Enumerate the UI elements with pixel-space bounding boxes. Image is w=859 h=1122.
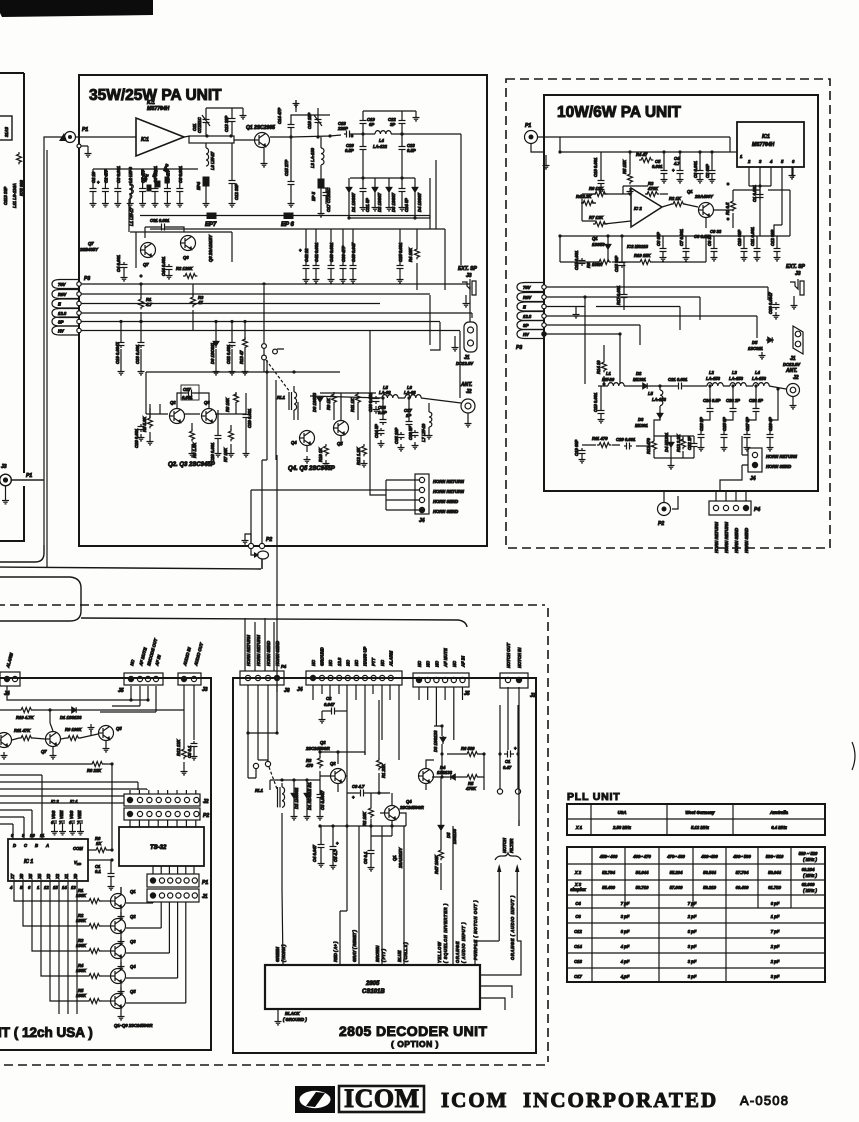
- svg-text:0.1: 0.1: [95, 869, 101, 874]
- ground stub near P1: [87, 146, 89, 150]
- svg-text:P2: P2: [658, 521, 664, 527]
- ICOM oval badge: [295, 1086, 335, 1113]
- svg-text:L7 LW-19: L7 LW-19: [421, 423, 426, 442]
- svg-text:6: 6: [792, 159, 795, 164]
- svg-text:C13 32P: C13 32P: [224, 115, 229, 132]
- svg-text:C12: C12: [574, 929, 582, 934]
- svg-text:R5 15K: R5 15K: [622, 159, 627, 174]
- svg-text:VSS: VSS: [51, 810, 56, 819]
- svg-text:100K: 100K: [76, 993, 87, 998]
- svg-text:NC: NC: [354, 659, 359, 666]
- J5 strip (decoder): [413, 673, 469, 687]
- 10W P3 pin HV: [517, 330, 544, 339]
- svg-text:Q2. Q3 2SC945P: Q2. Q3 2SC945P: [168, 462, 216, 468]
- svg-text:R11 47K: R11 47K: [14, 728, 31, 733]
- D2 1SS87: [372, 186, 378, 194]
- svg-text:Q2: Q2: [320, 740, 326, 745]
- svg-text:100K: 100K: [76, 893, 87, 898]
- svg-text:C8 68P: C8 68P: [656, 232, 661, 246]
- wire X2 stub: [58, 881, 60, 1014]
- svg-text:C12 33P: C12 33P: [234, 183, 239, 200]
- svg-text:2.56 MHz: 2.56 MHz: [612, 825, 632, 830]
- svg-text:M1301: M1301: [635, 423, 648, 428]
- decoder unit box: [233, 678, 536, 1053]
- C21 5P: [360, 186, 367, 194]
- svg-text:L11 LS-124A: L11 LS-124A: [12, 183, 17, 208]
- svg-text:56.719: 56.719: [636, 885, 649, 890]
- svg-text:55.469: 55.469: [602, 885, 615, 890]
- top right rail and ground: [363, 111, 416, 144]
- P3 pin HV: [52, 326, 79, 335]
- svg-text:57.969: 57.969: [670, 885, 683, 890]
- svg-text:R14 10: R14 10: [596, 360, 601, 374]
- svg-text:490~ 500: 490~ 500: [732, 854, 751, 859]
- svg-text:R12 1.2K: R12 1.2K: [356, 446, 361, 465]
- svg-text:470: 470: [305, 763, 314, 768]
- svg-text:C15 27P: C15 27P: [284, 159, 289, 176]
- svg-text:EP 5: EP 5: [311, 191, 316, 201]
- svg-text:L3: L3: [732, 370, 738, 375]
- svg-text:C7Z51C: C7Z51C: [197, 116, 202, 133]
- transistor Q6 (left cut): [0, 733, 12, 748]
- svg-text:J1: J1: [202, 894, 208, 900]
- Q4 Q5 subcircuit: [300, 431, 315, 446]
- connector J1 DC13.8V (35W): [464, 322, 477, 352]
- svg-text:Q5: Q5: [130, 989, 136, 994]
- svg-text:2SA496Y: 2SA496Y: [694, 194, 714, 199]
- svg-text:Q7: Q7: [88, 241, 94, 246]
- svg-text:R47 100K: R47 100K: [434, 854, 439, 874]
- svg-text:7 pF: 7 pF: [621, 901, 630, 906]
- svg-text:( HORN ): ( HORN ): [281, 944, 286, 962]
- svg-text:NC: NC: [426, 660, 431, 667]
- page curl mark right edge: [852, 742, 855, 770]
- svg-text:R7 12K: R7 12K: [589, 215, 604, 220]
- svg-text:Q4. Q5 2SC945P: Q4. Q5 2SC945P: [288, 466, 336, 472]
- svg-text:FILTER: FILTER: [509, 839, 514, 853]
- svg-text:C16 0.001: C16 0.001: [593, 157, 598, 177]
- svg-text:( MHz ): ( MHz ): [803, 888, 817, 893]
- svg-text:62.969: 62.969: [802, 882, 815, 887]
- wiggle R75: [17, 152, 22, 164]
- right-side vertical bus wires: [417, 160, 472, 398]
- P3 pin E: [52, 299, 79, 308]
- svg-text:L4: L4: [379, 138, 385, 143]
- transistor Q7 2SB435Y: [141, 243, 156, 258]
- svg-text:R13 47: R13 47: [239, 350, 244, 364]
- svg-text:100K: 100K: [76, 968, 87, 973]
- svg-text:59.044: 59.044: [768, 870, 781, 875]
- svg-text:R2 1K: R2 1K: [669, 196, 682, 201]
- svg-text:C14: C14: [574, 944, 582, 949]
- svg-text:E: E: [523, 305, 526, 310]
- 10W/6W dashed outer box: [506, 79, 830, 548]
- svg-text:C15 68P: C15 68P: [614, 255, 619, 272]
- svg-text:D8 1SS53: D8 1SS53: [312, 392, 317, 412]
- wires top network: [270, 134, 461, 265]
- 10W P3 pin SP: [517, 321, 544, 330]
- svg-text:0.47: 0.47: [503, 765, 512, 770]
- 10W P3 pin 13.8: [517, 312, 544, 321]
- svg-text:Q4: Q4: [406, 799, 412, 804]
- connector J3 (bottom-left unit): [178, 673, 201, 685]
- svg-text:Q7: Q7: [143, 262, 149, 267]
- svg-text:NC: NC: [434, 660, 439, 667]
- svg-text:C10 68P: C10 68P: [737, 229, 742, 246]
- svg-text:3 pF: 3 pF: [621, 914, 630, 919]
- svg-text:78V: 78V: [58, 282, 67, 287]
- collector bus verticals: [121, 887, 186, 1003]
- svg-text:( AUDIO INPUT ): ( AUDIO INPUT ): [461, 922, 466, 963]
- svg-text:C15 0.001: C15 0.001: [574, 250, 579, 270]
- svg-text:R1 23K: R1 23K: [381, 763, 386, 778]
- ground stub at P2: [245, 534, 251, 543]
- svg-text:10: 10: [30, 833, 35, 838]
- svg-text:YELLOW: YELLOW: [437, 941, 442, 963]
- svg-text:59.219: 59.219: [703, 885, 716, 890]
- svg-text:+: +: [299, 248, 302, 253]
- 10W P3 bus wires: [546, 287, 768, 384]
- feed wires down left of box: [11, 137, 65, 567]
- P2 connector (10W): [658, 503, 671, 516]
- svg-text:D2 1SS87: D2 1SS87: [377, 192, 382, 212]
- svg-text:HORN RETURN: HORN RETURN: [433, 489, 465, 494]
- svg-text:( MHz ): ( MHz ): [803, 873, 817, 878]
- svg-text:3 pF: 3 pF: [688, 959, 697, 964]
- svg-text:EXT. SP: EXT. SP: [786, 264, 805, 270]
- svg-text:Q3: Q3: [130, 939, 136, 944]
- svg-text:L5: L5: [648, 391, 654, 396]
- IC1 box (bottom-left): [8, 839, 88, 881]
- svg-text:P3: P3: [516, 345, 522, 351]
- svg-text:GREEN: GREEN: [275, 946, 280, 962]
- svg-text:R9: R9: [586, 262, 591, 268]
- C3 0.0047: [317, 792, 324, 800]
- svg-text:C16 16P: C16 16P: [307, 112, 312, 129]
- svg-text:LA-153: LA-153: [729, 376, 744, 381]
- svg-text:220P: 220P: [337, 126, 348, 131]
- svg-text:C3 0.001: C3 0.001: [693, 160, 698, 178]
- svg-text:C24 0.5P: C24 0.5P: [703, 398, 721, 403]
- J4 horn connector (10W): [748, 448, 762, 472]
- wire bus y775: [0, 774, 42, 776]
- svg-text:5: 5: [781, 159, 784, 164]
- svg-text:13.8: 13.8: [523, 314, 532, 319]
- top stub grounds: [206, 108, 243, 112]
- svg-text:L2: L2: [709, 370, 715, 375]
- svg-text:C16: C16: [574, 959, 582, 964]
- svg-text:Q1: Q1: [392, 855, 397, 861]
- svg-text:C35 10P: C35 10P: [394, 427, 399, 444]
- svg-text:61.719: 61.719: [768, 885, 781, 890]
- svg-text:56.544: 56.544: [703, 870, 716, 875]
- svg-text:HORN SEND: HORN SEND: [744, 528, 749, 553]
- Q7/Q6 bias subcircuit box wires: [130, 227, 232, 268]
- svg-text:IC 1: IC 1: [24, 859, 33, 865]
- svg-text:( SQUELCH INVERTER ): ( SQUELCH INVERTER ): [443, 903, 448, 963]
- svg-text:AF IN: AF IN: [461, 655, 466, 668]
- svg-text:AF MUTE: AF MUTE: [443, 648, 448, 668]
- P3 bus wires: [81, 284, 472, 331]
- ICOM boxed wordmark: [339, 1086, 424, 1112]
- svg-text:8 pF: 8 pF: [688, 929, 697, 934]
- svg-text:J5: J5: [464, 691, 470, 697]
- transistor Q4: [111, 969, 126, 984]
- component box in left unit: [0, 116, 12, 140]
- svg-text:P1: P1: [525, 123, 531, 129]
- svg-text:R11 470: R11 470: [592, 436, 608, 441]
- svg-text:J3: J3: [795, 271, 801, 277]
- IC1 MS7704H box (10W): [737, 122, 804, 167]
- svg-text:R8 22K: R8 22K: [87, 768, 102, 773]
- wire X6 to R2: [23, 881, 87, 926]
- svg-text:1 pF: 1 pF: [771, 914, 780, 919]
- svg-text:D2: D2: [636, 371, 642, 376]
- svg-text:Q4: Q4: [291, 440, 297, 445]
- svg-text:Q1: Q1: [130, 889, 136, 894]
- svg-text:SP: SP: [58, 320, 64, 325]
- svg-text:2 pF: 2 pF: [687, 914, 697, 919]
- wires into 2805: [340, 820, 521, 975]
- svg-text:D1 1SS133: D1 1SS133: [60, 715, 82, 720]
- wire bus y824: [0, 823, 13, 825]
- J2 strip: [124, 794, 200, 806]
- svg-text:ALARM: ALARM: [5, 652, 14, 669]
- svg-text:simplex: simplex: [570, 887, 586, 892]
- svg-text:3 pF: 3 pF: [771, 974, 780, 979]
- svg-text:31A3: 31A3: [4, 126, 9, 137]
- svg-text:C18 0.001: C18 0.001: [593, 392, 598, 412]
- svg-text:R8V: R8V: [58, 292, 67, 297]
- svg-text:C44 0.001: C44 0.001: [161, 256, 166, 276]
- svg-text:0.5P: 0.5P: [345, 148, 354, 153]
- wire P1 to IC1: [75, 136, 190, 146]
- svg-text:LA-122: LA-122: [373, 144, 388, 149]
- svg-text:NC: NC: [328, 659, 333, 666]
- transistor Q5: [99, 726, 114, 741]
- svg-text:C32 0.001: C32 0.001: [226, 344, 231, 364]
- svg-text:1: 1: [740, 154, 743, 159]
- svg-text:4 pF: 4 pF: [620, 959, 630, 964]
- capacitor C17 C7Z81C: [323, 190, 330, 198]
- svg-text:C1: C1: [505, 759, 511, 764]
- svg-text:Q1~Q9 2SC2458GR: Q1~Q9 2SC2458GR: [114, 1023, 153, 1028]
- EP5 marker: [318, 179, 324, 188]
- svg-text:54.044: 54.044: [636, 870, 649, 875]
- svg-text:6P: 6P: [369, 122, 374, 127]
- svg-text:NC: NC: [417, 660, 422, 667]
- J1 DC13.8V (10W): [793, 326, 803, 354]
- svg-text:J3: J3: [202, 687, 208, 693]
- svg-text:R11 1K: R11 1K: [350, 397, 355, 412]
- svg-text:10W/6W PA UNIT: 10W/6W PA UNIT: [557, 104, 682, 121]
- svg-text:D2 1N4002: D2 1N4002: [294, 787, 299, 809]
- D1 1SS133: [70, 707, 78, 713]
- D2 1N4002: [291, 792, 297, 800]
- 2805 CS101B box: [265, 965, 480, 1009]
- wire X3 to R5: [50, 881, 87, 1001]
- svg-text:SP: SP: [523, 323, 529, 328]
- P2 terminals on box edge: [248, 543, 253, 548]
- svg-text:D1 1SS97: D1 1SS97: [351, 192, 356, 212]
- svg-text:CS101B: CS101B: [362, 989, 385, 995]
- Q4 2SC2458GR (decoder right): [419, 769, 434, 784]
- svg-text:J4: J4: [297, 687, 303, 693]
- EP6 marker: [284, 213, 293, 219]
- svg-text:C4 0.047: C4 0.047: [312, 844, 317, 862]
- svg-text:Q6: Q6: [183, 255, 189, 260]
- svg-text:J4: J4: [750, 476, 756, 482]
- svg-text:IC1: IC1: [762, 134, 770, 140]
- svg-text:2SB435Y: 2SB435Y: [79, 247, 99, 252]
- svg-text:52.794: 52.794: [602, 870, 615, 875]
- svg-text:C33 0.001: C33 0.001: [135, 344, 140, 364]
- J4 horn connector (35W): [415, 474, 429, 514]
- svg-text:D3: D3: [638, 417, 644, 422]
- solid boundary line below dashed: [81, 618, 467, 627]
- ground mid: [575, 307, 577, 312]
- P4 strip (10W): [709, 501, 751, 515]
- svg-text:( GROUND ): ( GROUND ): [283, 1017, 307, 1022]
- svg-text:11: 11: [40, 833, 45, 838]
- wire bus y789: [0, 788, 147, 790]
- svg-text:VEE: VEE: [77, 810, 82, 819]
- svg-text:( OPTION ): ( OPTION ): [391, 1039, 439, 1049]
- svg-text:M1301: M1301: [633, 377, 646, 382]
- svg-text:60.294: 60.294: [802, 867, 815, 872]
- svg-text:C: C: [24, 843, 28, 848]
- svg-text:HV: HV: [523, 332, 530, 337]
- svg-text:470~ 480: 470~ 480: [666, 854, 685, 859]
- svg-text:R75 680: R75 680: [19, 179, 24, 196]
- svg-text:C19 68P: C19 68P: [574, 439, 579, 456]
- svg-text:ICOM: ICOM: [344, 1084, 420, 1113]
- svg-text:R9 100K: R9 100K: [65, 727, 83, 732]
- svg-text:R10 15K: R10 15K: [634, 253, 652, 258]
- svg-text:VDD: VDD: [74, 860, 82, 866]
- svg-text:R10 4.7K: R10 4.7K: [16, 715, 35, 720]
- svg-text:D5: D5: [752, 340, 758, 345]
- svg-text:C31 0.001: C31 0.001: [150, 218, 170, 223]
- svg-text:60.469: 60.469: [736, 885, 749, 890]
- svg-text:NC: NC: [311, 659, 316, 666]
- svg-text:R17 0.001: R17 0.001: [616, 285, 621, 305]
- svg-text:C4: C4: [575, 901, 581, 906]
- thick coupling bar after IC1: [189, 136, 234, 143]
- svg-text:0.5P: 0.5P: [407, 148, 416, 153]
- transistor Q5: [111, 994, 126, 1009]
- J3 notch strip: [500, 673, 528, 688]
- svg-text:RL1: RL1: [255, 788, 264, 793]
- P3 pin 78V: [52, 280, 79, 289]
- svg-text:P1: P1: [82, 127, 88, 133]
- P1 strip: [147, 874, 199, 887]
- svg-text:HORN SEND: HORN SEND: [734, 528, 739, 553]
- wires switch area: [264, 286, 294, 420]
- svg-text:HORN SEND: HORN SEND: [766, 464, 791, 469]
- connector P1 (10W): [525, 131, 538, 144]
- J6 harness wires from above: [245, 618, 274, 671]
- svg-text:1SC011: 1SC011: [748, 346, 763, 351]
- svg-text:B: B: [35, 843, 38, 848]
- svg-text:X2: X2: [55, 873, 60, 880]
- svg-text:HORN SEND: HORN SEND: [275, 641, 280, 666]
- svg-text:PLL UNIT: PLL UNIT: [567, 791, 620, 803]
- svg-text:NOTCH IN: NOTCH IN: [517, 647, 522, 668]
- svg-text:470K: 470K: [465, 786, 477, 791]
- svg-text:NC: NC: [345, 659, 350, 666]
- svg-text:X 1: X 1: [575, 825, 583, 830]
- svg-text:7 pF: 7 pF: [771, 929, 780, 934]
- svg-text:C21 5P: C21 5P: [365, 198, 370, 212]
- svg-text:HV: HV: [58, 329, 65, 334]
- svg-text:510 ~ 520: 510 ~ 520: [799, 851, 818, 856]
- BLACK (GROUND): [277, 1009, 279, 1018]
- svg-text:3 pF: 3 pF: [688, 974, 697, 979]
- rounded tab bubble on dashed boundary: [0, 577, 81, 621]
- svg-text:1: 1: [37, 885, 40, 890]
- svg-text:HORN RETURN: HORN RETURN: [256, 634, 261, 666]
- svg-text:100K: 100K: [76, 943, 87, 948]
- svg-text:IC 2: IC 2: [51, 799, 59, 804]
- svg-text:J2: J2: [203, 799, 209, 805]
- black registration bar top-left: [0, 0, 153, 17]
- long wire to P2 (slight slant): [0, 559, 262, 569]
- svg-text:2SC2458GR: 2SC2458GR: [399, 805, 424, 810]
- svg-text:Q1: Q1: [592, 236, 598, 241]
- svg-text:RL1: RL1: [277, 395, 286, 400]
- wire bus y810: [0, 809, 32, 811]
- svg-text:P1: P1: [26, 473, 32, 479]
- svg-text:6: 6: [28, 885, 31, 890]
- svg-text:1SS53: 1SS53: [592, 242, 605, 247]
- wires to J4: [370, 331, 419, 510]
- svg-text:1K: 1K: [96, 841, 102, 846]
- svg-text:West Germany: West Germany: [685, 810, 715, 815]
- svg-text:Q2: Q2: [130, 914, 136, 919]
- svg-text:P3: P3: [84, 276, 90, 282]
- wire X4 to R4: [41, 881, 87, 976]
- svg-text:6 pF: 6 pF: [771, 901, 780, 906]
- svg-text:TS-32: TS-32: [150, 845, 167, 851]
- wire X5 to R3: [32, 881, 87, 951]
- svg-text:3P: 3P: [390, 122, 395, 127]
- svg-text:13.8: 13.8: [58, 311, 67, 316]
- D4 1SS97: [412, 186, 418, 194]
- svg-text:HORN RETURN: HORN RETURN: [724, 521, 729, 553]
- svg-text:EP7: EP7: [205, 222, 217, 228]
- svg-text:C24 5P: C24 5P: [404, 198, 409, 212]
- svg-text:D5: D5: [446, 832, 451, 838]
- svg-text:2SA1015Y: 2SA1015Y: [398, 847, 403, 869]
- svg-text:J5: J5: [118, 688, 124, 694]
- svg-text:ORANGE ( AUDIO INPUT ): ORANGE ( AUDIO INPUT ): [510, 895, 515, 960]
- J4 strip (decoder): [306, 671, 402, 685]
- svg-text:ALARM: ALARM: [388, 650, 393, 667]
- decoder top wires: [248, 685, 519, 826]
- EP7 marker: [207, 213, 216, 219]
- svg-text:R4 3.3K: R4 3.3K: [576, 194, 592, 199]
- bottom bus of 35W box: [251, 360, 386, 546]
- svg-text:13: 13: [71, 885, 76, 890]
- 10W/6W solid box: [544, 95, 818, 491]
- svg-text:NC: NC: [380, 659, 385, 666]
- svg-text:J3: J3: [530, 693, 536, 699]
- svg-text:C2: C2: [326, 696, 332, 701]
- svg-text:ICOM INCORPORATED: ICOM INCORPORATED: [441, 1088, 718, 1112]
- EP1 EP2 EP3 markers: [147, 185, 151, 191]
- svg-text:PTT: PTT: [371, 658, 376, 666]
